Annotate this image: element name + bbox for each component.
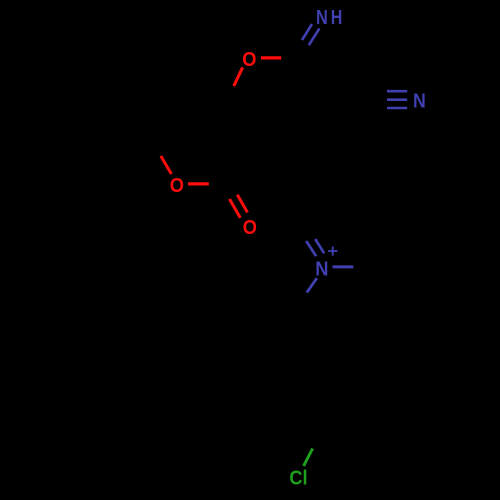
carbonyl C=O double bond line 2 (O half) xyxy=(237,195,247,213)
bond ester O-C(=O) horizontal (O half) xyxy=(188,182,209,185)
bond N+-CH2 down-left (N half) xyxy=(307,278,317,292)
plus charge sign xyxy=(328,247,337,256)
nitrile triple bond middle line (N half) xyxy=(387,98,407,101)
bond C-Cl down-left (Cl half) xyxy=(304,449,313,467)
nitrile triple bond bottom line (N half) xyxy=(387,107,407,110)
svg-text:N: N xyxy=(315,259,328,281)
pyridinium C=N+ double bond line 2 (N half) xyxy=(315,239,324,253)
svg-text:N: N xyxy=(316,7,328,29)
svg-text:Cl: Cl xyxy=(289,467,307,489)
carbonyl C=O double bond line 1 (O half) xyxy=(230,199,241,218)
bond O-C horizontal (O half) xyxy=(261,56,281,59)
pyridinium C=N+ double bond line 1 (N half) xyxy=(306,241,316,256)
bond N+-C horizontal right (N half) xyxy=(333,265,354,268)
bond C=NH double bond line 2 (N half) xyxy=(309,29,320,46)
svg-text:H: H xyxy=(331,7,343,29)
bond ester O-CH2 up-left (O half) xyxy=(161,156,172,174)
svg-text:O: O xyxy=(170,175,184,197)
svg-text:N: N xyxy=(413,91,426,113)
svg-text:O: O xyxy=(243,217,257,239)
svg-text:O: O xyxy=(242,49,256,71)
nitrile triple bond top line (N half) xyxy=(387,90,407,93)
bond C=NH double bond line 1 (N half) xyxy=(302,24,312,40)
bond O-CH2 down-left (O half) xyxy=(234,67,243,86)
